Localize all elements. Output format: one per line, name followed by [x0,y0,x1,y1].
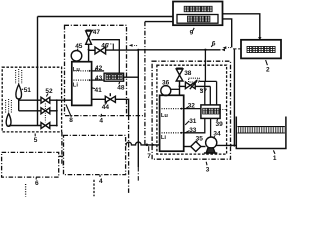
svg-text:51: 51 [24,87,32,94]
svg-text:34: 34 [213,131,221,138]
water surface hatch [237,126,285,128]
labels 42 43 41 [95,68,97,71]
CJK pseudo text: 中央控制器 [184,6,212,11]
pump outlet to water tank [216,144,236,146]
svg-text:4: 4 [99,117,103,124]
node at x138 [137,49,139,51]
gauge 36 [161,86,171,96]
connector box5 to box4 [62,132,64,165]
water tank 1 [236,117,286,149]
valve 52 row1 [41,97,45,103]
pump 34 [201,146,206,148]
arrow left at pipe end [221,48,225,51]
valve 38 (vent) [176,67,183,69]
central dash-dot control line down [144,22,146,145]
link valve47 to controller48 [92,40,120,73]
label 8 [66,105,71,117]
labels 32 31 33 [186,107,189,109]
svg-text:1: 1 [273,155,277,162]
gas hatch above flask 2 [5,100,7,113]
controller 48 box [104,73,124,81]
stem valve47 to tank [88,44,90,61]
row3 pipe [9,125,41,127]
row2 pipe [19,110,41,112]
svg-text:3: 3 [206,166,210,173]
wire: controller second line down to air pipe [223,19,232,48]
svg-text:9: 9 [190,30,194,37]
flask51 stem [18,99,20,111]
left tank 41 [72,62,92,106]
filter 35 [184,146,191,148]
arrow into air pipe w dots [223,46,227,49]
Li level dotted [74,79,90,81]
label 2 [266,60,268,65]
label 9 [193,28,195,31]
wire: controller to compressor top [223,14,260,39]
svg-text:35: 35 [196,135,204,142]
svg-text:45: 45 [75,43,83,50]
svg-text:8: 8 [69,117,73,124]
svg-text:7: 7 [147,153,151,160]
svg-text:46: 46 [101,42,109,49]
row1 pipe [19,99,41,101]
svg-text:Lu: Lu [73,67,81,73]
svg-text:4: 4 [99,178,103,185]
wire: main air pipe y=49.8 [138,49,220,51]
control program inner box [177,15,218,24]
central controller U9 box [173,2,223,26]
svg-text:Lu: Lu [161,113,169,119]
air compressor U2 box [241,40,281,59]
valve 44 [92,98,106,100]
svg-text:39: 39 [216,121,224,128]
dash-dot box 8 [65,25,127,115]
svg-text:6: 6 [35,180,39,187]
svg-text:47: 47 [93,29,101,36]
svg-text:5: 5 [34,137,38,144]
dash-dot bottom segment of box 4 (outer) [127,115,145,117]
node 6 [204,49,206,51]
Li level [162,132,182,134]
svg-text:6: 6 [212,41,216,48]
flask 51 [16,85,22,100]
pipe from box4 to right tank with hops [126,142,160,145]
control lines node6 to controller 30 [204,50,206,82]
Lu level [162,108,182,110]
valve stems dotted [44,104,46,123]
box 4 dash-dot [64,135,126,174]
CJK pseudo text: 控制器 (right) [203,108,219,114]
wire: central controller mid line [145,21,173,23]
svg-text:48: 48 [117,85,125,92]
svg-text:41: 41 [95,87,103,94]
valve 37 controlled [180,85,186,87]
valve row2 [41,108,45,114]
svg-text:2: 2 [266,67,270,74]
svg-text:37: 37 [200,88,208,95]
valve 47 (vent) [86,29,92,31]
CJK pseudo text: 控制器 (left) [106,75,122,80]
valve 46 [89,49,95,51]
compressor air down-feed to water line [233,49,235,145]
box 6 dash-dot [2,152,59,177]
wire: branch from pipe down to left controller 48 [137,50,139,167]
svg-text:44: 44 [102,104,110,111]
wire: top control line from manifold to central controller [38,16,174,18]
arrow + dots into left box [129,44,133,47]
gas hatch above flask 51 [15,70,17,84]
svg-text:42: 42 [95,65,103,72]
right tank 31 [160,95,184,151]
svg-text:52: 52 [45,88,53,95]
wire: left vertical bus from top line down to gas manifold rows [37,17,39,126]
svg-text:38: 38 [184,70,192,77]
Lu level dotted [74,70,90,72]
svg-text:Li: Li [73,83,79,89]
svg-text:Li: Li [161,135,167,141]
gauge 45 [71,51,82,62]
right bus connecting rows [56,100,58,125]
svg-text:43: 43 [95,75,103,82]
CJK pseudo text: 控制程序 [188,16,210,22]
valve row3 [41,123,45,129]
svg-text:32: 32 [188,103,196,110]
svg-text:31: 31 [189,118,197,125]
dash-dot continuation below valve44 corner [128,116,130,193]
inner dashed box [157,65,227,154]
label 4 (edge) [100,114,103,117]
flask (second) [6,114,11,127]
controller 30 box [201,105,220,119]
CJK pseudo text: 空气压缩机 [247,46,275,52]
svg-text:33: 33 [189,127,197,134]
svg-text:36: 36 [162,79,170,86]
